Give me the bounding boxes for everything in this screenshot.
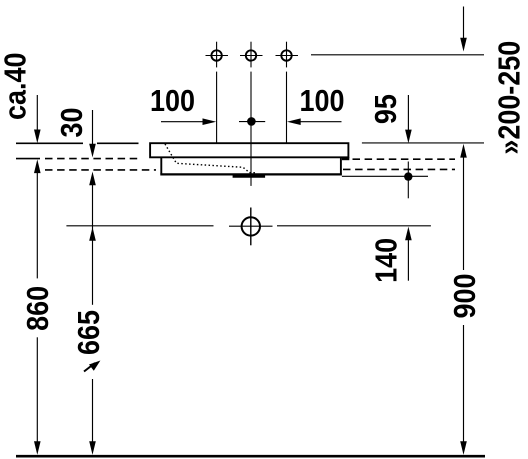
- drain circle: [242, 217, 260, 235]
- arrowhead up for 900 top: [460, 144, 467, 158]
- dimension line ca.40 / 860 at x=37.3: [36, 95, 38, 131]
- arrowhead down for 200-250: [460, 38, 467, 52]
- basin interior dotted profile: [165, 144, 257, 173]
- svg-text:860: 860: [22, 286, 56, 331]
- svg-text:ca.40: ca.40: [0, 53, 33, 120]
- wire: vertical through reference dot: [407, 162, 409, 199]
- wire: axis line below circle 1: [216, 72, 218, 143]
- wire: bottom thin extension to reference dot: [342, 175, 428, 177]
- node: single hole marker dot: [247, 117, 256, 126]
- svg-text:»200-250: »200-250: [493, 41, 527, 155]
- arrowhead up for 140: [405, 227, 412, 241]
- svg-text:140: 140: [370, 238, 404, 283]
- drain circle crosshair: [229, 225, 273, 227]
- wire: counter bottom dashed left: [45, 158, 142, 160]
- wire: center axis line below circle 2: [250, 72, 252, 186]
- node: wall reference dot right: [404, 172, 412, 180]
- arrowhead down for 95: [405, 130, 412, 144]
- wire: tick through marker dot: [239, 121, 265, 123]
- wire: rim-level thin line right: [362, 142, 484, 144]
- faucet hole circle 3: [281, 50, 291, 60]
- svg-text:665: 665: [72, 310, 106, 355]
- faucet hole circle 2: [246, 50, 256, 60]
- dimension line 200-250 / 900 at x=463.5: [463, 7, 465, 39]
- basin bottom thick line: [160, 173, 342, 175]
- arrowhead up for 30 bottom: [89, 172, 96, 186]
- arrowhead down for 900 bottom at floor: [460, 441, 467, 455]
- faucet hole circle 1: [211, 50, 221, 60]
- wire: drain level line left: [66, 225, 213, 227]
- dimension line 30 / 665 at x=92.5: [92, 110, 94, 145]
- wire: counter top line second segment: [97, 142, 139, 144]
- pointer arrow for 665 label: [84, 361, 100, 372]
- arrowhead down for 860 bottom at floor: [34, 441, 41, 455]
- wire: counter bottom dashed right: [353, 158, 456, 160]
- floor line: [16, 455, 485, 458]
- dimension line 95 at x=408.4: [407, 95, 409, 131]
- wire: axis line below circle 3: [286, 72, 288, 143]
- arrowhead right for 100 left: [203, 118, 217, 125]
- faucet hole circle 1 crosshair: [206, 55, 229, 57]
- basin rim outline: [150, 143, 348, 157]
- wire: drain level line right: [277, 225, 431, 227]
- dimension line 100 right horizontal: [300, 121, 342, 123]
- wire: lower dashed line right: [343, 168, 455, 170]
- arrowhead left for 100 right: [287, 118, 301, 125]
- svg-text:100: 100: [150, 84, 195, 118]
- basin rim right step: [342, 157, 349, 160]
- faucet hole circle 3 crosshair: [276, 55, 299, 57]
- arrowhead up for 860 top: [34, 159, 41, 173]
- arrowhead up for 665 at drain line: [89, 227, 96, 241]
- basin drain thick segment: [233, 175, 266, 178]
- dimension line 100 left horizontal: [161, 121, 204, 123]
- arrowhead down for 30 top: [89, 144, 96, 158]
- faucet hole circle 2 crosshair: [240, 55, 263, 57]
- svg-text:95: 95: [369, 94, 403, 124]
- wire: faucet reference line top right: [311, 54, 484, 56]
- wire: counter top line left segment: [16, 142, 83, 144]
- dimension line 140 at x=408.4: [407, 240, 409, 281]
- svg-text:100: 100: [300, 84, 345, 118]
- wire: lower dashed line left: [45, 169, 156, 171]
- arrowhead down for ca.40: [34, 130, 41, 144]
- arrowhead down for 665 at floor: [89, 441, 96, 455]
- svg-text:30: 30: [56, 108, 90, 138]
- svg-text:900: 900: [448, 274, 482, 319]
- wire: counter bottom solid left: [16, 158, 40, 160]
- basin body outline: [161, 158, 341, 174]
